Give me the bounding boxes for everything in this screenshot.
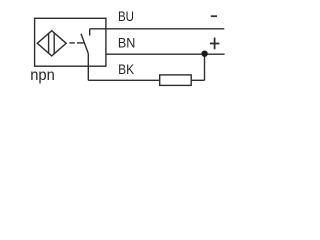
- svg-text:BK: BK: [118, 62, 135, 77]
- diamond chord right: [53, 33, 55, 54]
- switch blade Q: [81, 34, 88, 54]
- switch terminal rail to BU: [89, 29, 91, 36]
- sensor enclosure box: [35, 18, 106, 66]
- dash from sensor output: [69, 42, 74, 44]
- load resistor RL: [160, 75, 192, 86]
- svg-text:BN: BN: [118, 36, 135, 51]
- polarity plus: [210, 38, 220, 50]
- svg-text:BU: BU: [118, 9, 134, 24]
- diamond chord left: [48, 34, 50, 54]
- wire BN (brown) to plus: [106, 53, 225, 55]
- switch fixed contact dash: [77, 42, 85, 44]
- proximity sensor symbol (diamond): [37, 31, 66, 56]
- wire riser to BN junction: [204, 54, 206, 80]
- wire BK vertical from switch: [87, 53, 89, 80]
- polarity minus: [211, 15, 217, 17]
- wire BU (blue) to minus: [90, 28, 225, 30]
- wire load to riser: [191, 79, 204, 81]
- junction dot on BN wire: [201, 51, 207, 57]
- wire BK (black) to load: [88, 79, 159, 81]
- svg-text:npn: npn: [30, 67, 55, 84]
